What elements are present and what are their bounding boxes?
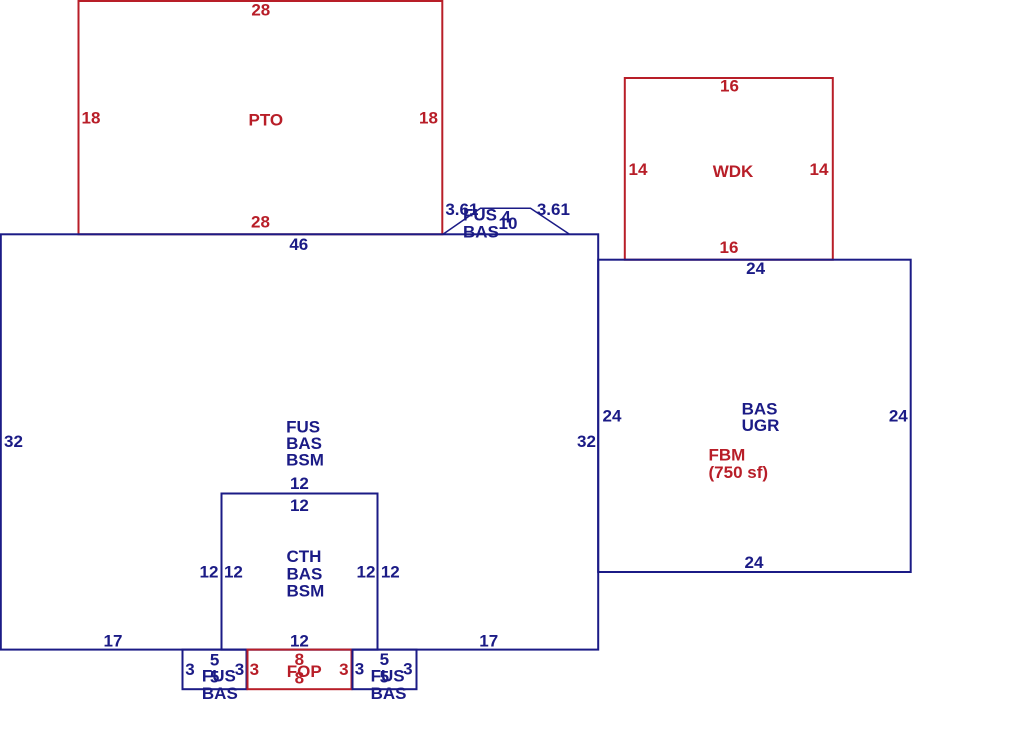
svg-text:24: 24 <box>603 406 622 425</box>
svg-text:18: 18 <box>82 109 101 128</box>
svg-text:12: 12 <box>290 631 309 650</box>
bay bump-out FUS/BAS trapezoid outline <box>443 208 570 234</box>
svg-text:17: 17 <box>104 631 123 650</box>
svg-text:3: 3 <box>355 660 364 679</box>
svg-text:FUS: FUS <box>202 667 236 686</box>
svg-text:16: 16 <box>720 238 739 257</box>
svg-text:12: 12 <box>290 474 309 493</box>
wood deck WDK outline <box>625 78 833 260</box>
svg-text:12: 12 <box>381 563 400 582</box>
main dwelling FUS/BAS/BSM outline <box>1 234 598 649</box>
svg-text:(750 sf): (750 sf) <box>709 463 769 482</box>
svg-text:BAS: BAS <box>202 684 238 703</box>
svg-text:32: 32 <box>577 432 596 451</box>
svg-text:BAS: BAS <box>287 564 323 583</box>
svg-text:16: 16 <box>720 76 739 95</box>
svg-text:28: 28 <box>251 1 270 20</box>
svg-text:12: 12 <box>357 563 376 582</box>
front porch FOP outline <box>248 650 352 690</box>
patio PTO outline <box>79 1 443 234</box>
svg-text:BAS: BAS <box>371 684 407 703</box>
svg-text:10: 10 <box>499 214 518 233</box>
left stoop FUS/BAS outline <box>183 650 247 690</box>
svg-text:WDK: WDK <box>713 162 754 181</box>
svg-text:3: 3 <box>185 660 194 679</box>
svg-text:FUS: FUS <box>371 667 405 686</box>
svg-text:24: 24 <box>746 259 765 278</box>
svg-text:18: 18 <box>419 109 438 128</box>
svg-text:BSM: BSM <box>287 582 325 601</box>
cathedral area CTH outline <box>222 494 378 650</box>
svg-text:28: 28 <box>251 213 270 232</box>
svg-text:BAS: BAS <box>463 222 499 241</box>
svg-text:12: 12 <box>290 496 309 515</box>
svg-text:12: 12 <box>224 563 243 582</box>
svg-text:14: 14 <box>629 160 648 179</box>
svg-text:46: 46 <box>289 235 308 254</box>
svg-text:3: 3 <box>250 660 259 679</box>
svg-text:FOP: FOP <box>287 662 322 681</box>
svg-text:3.61: 3.61 <box>537 200 570 219</box>
svg-text:BSM: BSM <box>286 451 324 470</box>
basement garage BAS/UGR outline <box>598 260 911 572</box>
svg-text:3: 3 <box>339 660 348 679</box>
svg-text:UGR: UGR <box>742 416 780 435</box>
svg-text:8: 8 <box>295 668 304 687</box>
svg-text:12: 12 <box>200 563 219 582</box>
svg-text:24: 24 <box>889 406 908 425</box>
svg-text:14: 14 <box>810 160 829 179</box>
svg-text:32: 32 <box>4 432 23 451</box>
svg-text:24: 24 <box>745 553 764 572</box>
svg-text:PTO: PTO <box>249 110 284 129</box>
right stoop FUS/BAS outline <box>353 650 417 690</box>
svg-text:17: 17 <box>479 631 498 650</box>
svg-text:3: 3 <box>235 660 244 679</box>
